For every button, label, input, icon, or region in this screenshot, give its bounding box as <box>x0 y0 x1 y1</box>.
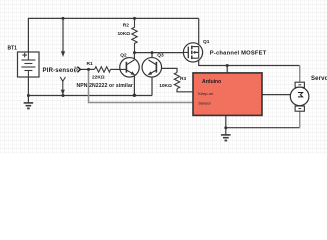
svg-text:R2: R2 <box>123 23 129 29</box>
resistor R2 <box>118 18 138 53</box>
svg-text:Q2: Q2 <box>120 52 127 58</box>
node gnd / Q2 emitter <box>133 94 136 97</box>
wire Arduino to servo signal <box>262 94 291 96</box>
svg-text:NPN 2N2222 or similar: NPN 2N2222 or similar <box>77 83 133 89</box>
resistor R1 <box>87 61 111 81</box>
node gate / Q3 collector <box>151 51 154 54</box>
wire servo top lead (gray) <box>299 66 301 83</box>
resistor R3 <box>159 73 186 89</box>
node V+ / PIR feed <box>62 17 65 20</box>
wire servo bottom lead (gray) <box>299 111 301 128</box>
transistor Q2 (NPN) <box>120 52 140 77</box>
servo motor M1 <box>290 76 327 111</box>
wire Q2 collector <box>133 53 135 60</box>
wire R1 to Q2 base <box>110 68 120 70</box>
wire Q3 collector <box>151 53 153 60</box>
wire Arduino Vcc pin <box>226 66 228 73</box>
svg-text:22KΩ: 22KΩ <box>92 74 105 80</box>
svg-text:10KΩ: 10KΩ <box>118 31 131 37</box>
svg-text:R1: R1 <box>87 61 93 67</box>
node gnd / battery <box>27 94 30 97</box>
node drain / Arduino Vcc <box>226 64 229 67</box>
wire Q2 emitter <box>133 75 135 96</box>
wire Q3 base to R3 <box>156 68 177 72</box>
ground (Arduino) <box>221 128 231 141</box>
node gnd / PIR return <box>62 94 65 97</box>
node gnd / Arduino / servo return <box>224 126 227 129</box>
node V+ / R2 <box>133 17 136 20</box>
MOSFET Q1 (P-channel) <box>183 39 266 62</box>
wire PIR signal to R1 <box>80 68 94 70</box>
arrow V+ feed to PIR-sensor <box>61 18 65 57</box>
svg-text:Q3: Q3 <box>157 52 164 58</box>
svg-text:Q1: Q1 <box>203 39 210 45</box>
svg-text:Sensor: Sensor <box>198 100 211 105</box>
transistor Q3 (NPN mirrored) <box>142 52 164 77</box>
node PIR signal / sensor wire <box>87 68 90 71</box>
wire servo return bottom <box>226 127 300 129</box>
battery BT1 <box>8 46 40 77</box>
wire Q3 emitter <box>151 75 153 96</box>
arrow PIR-sensor to ground <box>60 77 65 95</box>
svg-text:Arduino: Arduino <box>202 79 221 85</box>
node gate / R2 / Q2 collector <box>133 51 136 54</box>
grid background <box>0 0 327 154</box>
svg-text:BT1: BT1 <box>8 46 18 52</box>
wire Arduino GND pin <box>225 115 227 127</box>
wire top rail V+ <box>28 18 198 52</box>
svg-text:Servo: Servo <box>311 76 327 82</box>
svg-text:Keep-on: Keep-on <box>198 91 213 96</box>
svg-text:P-channel MOSFET: P-channel MOSFET <box>210 50 267 56</box>
wire battery bottom <box>27 77 29 96</box>
wire MOSFET source to rail <box>198 18 200 46</box>
wire R3 to Arduino Keep-on pin <box>177 89 194 92</box>
wire ground rail <box>28 95 152 97</box>
Arduino box U1 <box>193 73 262 116</box>
wire MOSFET drain line <box>199 58 300 65</box>
wire gate line <box>135 52 184 54</box>
svg-text:10KΩ: 10KΩ <box>159 83 172 89</box>
wire PIR sensor signal to Arduino (gray) <box>89 69 194 102</box>
svg-text:R3: R3 <box>180 76 186 82</box>
ground (battery) <box>24 96 34 109</box>
svg-text:PIR-sensor: PIR-sensor <box>43 68 77 74</box>
